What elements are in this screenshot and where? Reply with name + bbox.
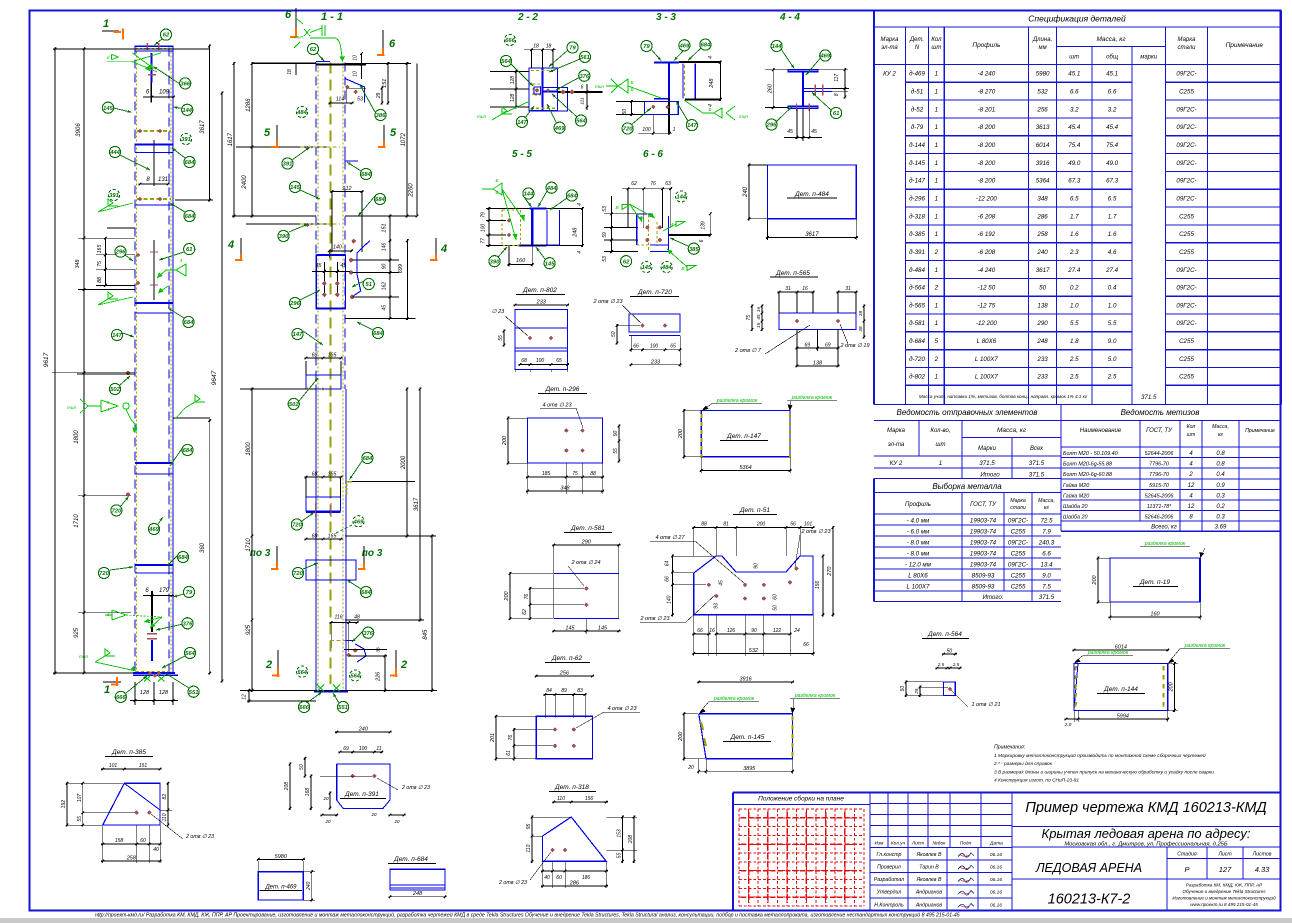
svg-text:147: 147 [687, 123, 697, 129]
svg-text:2 отв ∅ 7: 2 отв ∅ 7 [734, 348, 762, 354]
svg-text:9617: 9617 [43, 352, 50, 367]
column 1 right bracket plate [173, 417, 210, 419]
svg-text:1.8: 1.8 [1070, 338, 1079, 345]
column 1 top cap [135, 45, 174, 47]
svg-text:-8 270: -8 270 [978, 89, 996, 96]
svg-text:1: 1 [673, 127, 676, 133]
svg-text:2 отв ∅ 23: 2 отв ∅ 23 [800, 529, 831, 535]
svg-text:296: 296 [115, 250, 126, 256]
svg-text:55: 55 [498, 335, 504, 341]
svg-text:5.5: 5.5 [1108, 320, 1117, 327]
svg-text:145: 145 [565, 626, 575, 632]
svg-text:д-147: д-147 [909, 178, 925, 185]
svg-text:69: 69 [343, 746, 349, 752]
svg-text:шт: шт [931, 45, 941, 51]
svg-text:50: 50 [611, 331, 617, 337]
svg-text:д-581: д-581 [909, 320, 925, 327]
svg-text:40: 40 [153, 847, 159, 853]
svg-text:09Г2С-: 09Г2С- [1176, 160, 1196, 167]
svg-text:Марка: Марка [1178, 37, 1197, 43]
svg-text:Дет. п-391: Дет. п-391 [344, 791, 379, 798]
svg-text:3 В размерах длины и ширины у: 3 В размерах длины и ширины учтен припус… [994, 769, 1214, 775]
svg-text:147: 147 [112, 333, 122, 339]
section 4-4 flange bolts [796, 104, 798, 112]
svg-text:20: 20 [322, 796, 329, 801]
svg-text:2.5: 2.5 [937, 662, 945, 667]
svg-text:128: 128 [140, 690, 150, 696]
svg-text:1710: 1710 [74, 514, 80, 528]
svg-text:д-144: д-144 [909, 142, 925, 149]
svg-text:233: 233 [536, 300, 547, 306]
svg-text:Кол: Кол [931, 37, 942, 43]
svg-text:1.6: 1.6 [1108, 231, 1117, 238]
column 2 olive splice level 1 [236, 146, 330, 148]
section 6-6 balloons [676, 191, 687, 202]
svg-text:391: 391 [109, 193, 119, 199]
svg-text:290: 290 [1036, 320, 1048, 327]
svg-text:разделка кромок: разделка кромок [716, 398, 758, 404]
svg-text:260: 260 [767, 83, 773, 94]
svg-text:31: 31 [845, 286, 851, 292]
svg-text:разделка кромок: разделка кромок [791, 395, 833, 401]
svg-text:1: 1 [103, 18, 109, 30]
svg-text:845: 845 [423, 629, 429, 640]
svg-text:64: 64 [665, 561, 671, 567]
svg-text:116: 116 [335, 615, 343, 621]
svg-text:144: 144 [772, 44, 782, 50]
svg-text:502: 502 [289, 402, 299, 408]
svg-text:тип: тип [477, 114, 486, 119]
column 1 weld symbols [111, 54, 118, 59]
svg-text:С255: С255 [1011, 550, 1026, 557]
svg-text:Гайка М20: Гайка М20 [1063, 492, 1089, 499]
detail p-469 [257, 858, 305, 860]
svg-text:8509-93: 8509-93 [972, 572, 995, 579]
svg-text:564: 564 [576, 119, 586, 125]
svg-text:-8 200: -8 200 [978, 142, 996, 149]
svg-text:6.5: 6.5 [1108, 195, 1117, 202]
svg-text:75: 75 [97, 261, 103, 267]
svg-text:2 отв ∅ 23: 2 отв ∅ 23 [185, 834, 214, 840]
svg-text:2400: 2400 [242, 175, 248, 190]
svg-text:348: 348 [75, 260, 81, 269]
svg-text:Дет. п-385: Дет. п-385 [111, 749, 146, 756]
svg-text:720: 720 [623, 127, 633, 133]
svg-text:шт: шт [1187, 432, 1196, 438]
svg-text:2 - 2: 2 - 2 [517, 12, 538, 23]
svg-text:d: d [107, 55, 110, 60]
svg-text:разделка кромок: разделка кромок [713, 696, 755, 702]
svg-text:д-52: д-52 [911, 106, 924, 113]
svg-text:45: 45 [382, 305, 388, 311]
svg-text:Лист: Лист [911, 841, 924, 847]
svg-text:1617: 1617 [228, 132, 234, 146]
svg-text:82: 82 [162, 794, 168, 800]
svg-text:4: 4 [577, 251, 583, 254]
svg-text:551: 551 [189, 690, 199, 696]
svg-text:38: 38 [858, 311, 863, 317]
svg-text:208: 208 [284, 782, 290, 792]
svg-text:2 отв ∅ 23: 2 отв ∅ 23 [401, 785, 430, 791]
svg-text:Масса, кг: Масса, кг [997, 427, 1027, 434]
svg-text:Дет. п-144: Дет. п-144 [1103, 686, 1138, 693]
svg-text:Дет. п-51: Дет. п-51 [739, 507, 770, 514]
svg-text:09Г2С-: 09Г2С- [1008, 561, 1028, 568]
svg-text:469: 469 [819, 54, 830, 60]
column 2 top small dim 18 [295, 64, 297, 76]
svg-text:Дет. п-581: Дет. п-581 [570, 525, 605, 532]
section 4-4 dims [772, 68, 774, 109]
column 2 olive splice level 2 [246, 223, 330, 225]
section 6-6 top dims [622, 188, 672, 190]
svg-text:146: 146 [382, 243, 388, 252]
svg-text:564: 564 [185, 651, 195, 657]
svg-text:145: 145 [103, 106, 113, 112]
svg-text:Дет. п-484: Дет. п-484 [794, 191, 829, 198]
svg-text:90: 90 [382, 264, 388, 270]
detail p-51 right dims [822, 555, 824, 617]
svg-text:3.2: 3.2 [1108, 106, 1117, 113]
svg-text:12: 12 [1188, 504, 1195, 510]
svg-text:684: 684 [185, 214, 195, 220]
svg-text:296: 296 [766, 123, 777, 129]
svg-text:18: 18 [546, 44, 552, 50]
svg-text:101: 101 [109, 763, 118, 769]
svg-text:160213-К7-2: 160213-К7-2 [1048, 892, 1131, 908]
svg-text:В: В [681, 266, 684, 271]
svg-text:69: 69 [804, 343, 810, 349]
svg-text:160: 160 [1150, 612, 1160, 618]
column 1 right dim 9647 [221, 92, 223, 683]
svg-text:Наименование: Наименование [1080, 428, 1122, 434]
svg-text:684: 684 [567, 194, 577, 200]
section 5-5 hidden channel [502, 210, 520, 246]
svg-text:88: 88 [701, 522, 707, 528]
svg-text:153: 153 [617, 829, 623, 838]
svg-text:11371-78*: 11371-78* [1147, 504, 1172, 510]
svg-text:36: 36 [376, 647, 382, 653]
svg-text:d: d [107, 612, 110, 617]
svg-text:49.0: 49.0 [1106, 160, 1119, 167]
svg-text:348: 348 [560, 486, 570, 492]
detail p-145 [697, 681, 794, 683]
svg-text:66: 66 [697, 628, 703, 634]
column 2 right bracket mid [351, 241, 370, 298]
svg-text:52644-2006: 52644-2006 [1145, 451, 1174, 457]
svg-text:50: 50 [772, 605, 778, 611]
svg-text:Масса учит. наплавки 1%, метиз: Масса учит. наплавки 1%, метизов, болтов… [919, 394, 1088, 399]
svg-text:- 8.0 мм: - 8.0 мм [907, 539, 930, 546]
svg-text:Профиль: Профиль [972, 42, 1001, 49]
svg-text:2.0: 2.0 [1064, 722, 1072, 728]
svg-text:L 80X6: L 80X6 [977, 338, 997, 345]
svg-text:240: 240 [306, 881, 312, 891]
svg-text:Дет.: Дет. [909, 37, 924, 43]
svg-text:233: 233 [1036, 356, 1048, 363]
svg-text:д-296: д-296 [909, 195, 925, 202]
svg-text:684: 684 [178, 555, 188, 561]
svg-text:марки: марки [1140, 55, 1158, 61]
svg-text:- 6.0 мм: - 6.0 мм [907, 528, 930, 535]
svg-text:тип: тип [79, 654, 88, 659]
svg-text:385: 385 [689, 247, 699, 253]
svg-text:09Г2С-: 09Г2С- [1176, 142, 1196, 149]
svg-text:12: 12 [242, 694, 248, 700]
svg-text:666: 666 [116, 695, 126, 701]
svg-text:Кол: Кол [1187, 424, 1196, 430]
svg-text:Дет. п-565: Дет. п-565 [775, 270, 810, 277]
svg-text:1072: 1072 [401, 132, 407, 146]
svg-text:56: 56 [790, 522, 796, 528]
svg-text:кг: кг [1218, 432, 1223, 438]
svg-text:45.1: 45.1 [1106, 71, 1118, 78]
svg-text:258: 258 [126, 856, 137, 862]
svg-text:- 8.0 мм: - 8.0 мм [907, 550, 930, 557]
svg-text:666: 666 [505, 38, 515, 44]
section 3-3 bottom plate [645, 101, 679, 114]
section marker 1 top [102, 30, 119, 32]
signature table columns [1011, 793, 1013, 912]
svg-text:1800: 1800 [246, 442, 252, 456]
column 2 splice plate box [316, 255, 345, 308]
svg-text:20: 20 [687, 765, 694, 771]
svg-text:Дет. п-145: Дет. п-145 [730, 734, 765, 741]
svg-text:48: 48 [354, 615, 360, 621]
svg-text:5 - 5: 5 - 5 [512, 149, 532, 160]
column 1 web weld line top [150, 53, 152, 83]
svg-text:27.4: 27.4 [1067, 267, 1081, 274]
svg-text:110: 110 [557, 796, 565, 802]
svg-text:240: 240 [1036, 249, 1048, 256]
svg-text:Кол-во,: Кол-во, [930, 428, 950, 434]
svg-text:2.5: 2.5 [952, 662, 960, 667]
svg-text:L 100X7: L 100X7 [975, 374, 998, 381]
svg-text:Б: Б [709, 107, 712, 112]
svg-text:Яковлев В: Яковлев В [916, 852, 942, 858]
column 1 stiffener 684 mid [135, 302, 173, 304]
svg-text:д-565: д-565 [909, 302, 925, 309]
column 1 base [136, 671, 172, 673]
section 6-6 black stub [669, 234, 711, 236]
svg-text:1710: 1710 [246, 538, 252, 552]
svg-text:2 отв ∅ 23: 2 отв ∅ 23 [592, 299, 623, 305]
section 2-2 weld symbol [492, 114, 502, 120]
svg-text:371.5: 371.5 [1029, 472, 1045, 479]
svg-text:286: 286 [1036, 213, 1048, 220]
svg-text:151: 151 [139, 763, 148, 769]
section 6-6 weld flags [622, 205, 630, 210]
svg-text:13.4: 13.4 [1040, 561, 1053, 568]
svg-text:19903-74: 19903-74 [970, 561, 997, 568]
svg-text:9.0: 9.0 [1108, 338, 1117, 345]
svg-text:248: 248 [1036, 338, 1048, 345]
svg-text:110: 110 [162, 813, 168, 821]
column 2 bolts lower bracket [330, 622, 351, 624]
svg-text:484: 484 [661, 265, 672, 271]
svg-text:С255: С255 [1179, 231, 1194, 238]
svg-text:390: 390 [279, 234, 289, 240]
svg-text:Проверил: Проверил [877, 864, 901, 870]
svg-text:145: 145 [642, 265, 652, 271]
svg-text:100: 100 [481, 224, 487, 233]
hardware list table [1061, 446, 1281, 448]
svg-text:Марка: Марка [887, 428, 906, 434]
svg-text:Итого: Итого [980, 472, 1000, 479]
svg-text:1 Маркировку металлоконструкц: 1 Маркировку металлоконструкций производ… [994, 752, 1206, 759]
svg-text:4 Конструкция изгот. по СНиП-: 4 Конструкция изгот. по СНиП-23-81 [994, 778, 1079, 784]
svg-text:145: 145 [598, 626, 608, 632]
svg-text:2000: 2000 [401, 455, 407, 470]
svg-text:Всего, кг: Всего, кг [1151, 525, 1177, 531]
svg-text:Яковлев В: Яковлев В [916, 877, 942, 883]
svg-text:93: 93 [714, 603, 720, 609]
svg-text:Изготовление и монтаж металлок: Изготовление и монтаж металлоконструкций [1172, 895, 1276, 901]
svg-text:10: 10 [353, 55, 359, 61]
column 1 gusset 502 [126, 372, 130, 374]
svg-text:564: 564 [350, 674, 360, 680]
svg-text:185: 185 [542, 471, 551, 477]
svg-text:19903-74: 19903-74 [970, 539, 997, 546]
svg-text:684: 684 [361, 172, 371, 178]
svg-text:д-564: д-564 [909, 285, 925, 292]
svg-text:502: 502 [110, 387, 120, 393]
svg-text:128: 128 [159, 690, 169, 696]
section 2-2 balloons [504, 34, 515, 45]
svg-text:212: 212 [341, 186, 351, 192]
svg-text:101: 101 [804, 522, 813, 528]
svg-text:-12 200: -12 200 [976, 320, 998, 327]
svg-text:88: 88 [97, 277, 103, 283]
svg-text:КУ 2: КУ 2 [883, 71, 896, 78]
svg-text:4: 4 [577, 203, 583, 206]
section 4-4 gusset stub [803, 88, 832, 90]
svg-text:371.5: 371.5 [1029, 460, 1045, 467]
svg-text:№док: №док [933, 841, 947, 847]
section 3-3 I-beam [654, 61, 679, 63]
svg-text:Спецификация деталей: Спецификация деталей [1028, 14, 1126, 24]
svg-text:720: 720 [99, 571, 109, 577]
svg-text:62: 62 [623, 259, 630, 265]
svg-text:53: 53 [357, 97, 363, 103]
svg-text:9647: 9647 [211, 370, 218, 385]
svg-text:50: 50 [900, 686, 906, 692]
svg-text:С255: С255 [1179, 356, 1194, 363]
column 2 right dim chains [406, 62, 408, 218]
detail p-385 outline [103, 783, 160, 825]
svg-text:168: 168 [305, 788, 311, 797]
svg-text:6: 6 [581, 85, 584, 91]
svg-text:4 отв ∅ 23: 4 отв ∅ 23 [607, 706, 637, 712]
svg-text:348: 348 [1037, 195, 1048, 202]
svg-text:233: 233 [1036, 374, 1048, 381]
svg-text:89: 89 [561, 688, 567, 694]
svg-text:4: 4 [107, 400, 110, 405]
svg-text:126: 126 [727, 628, 736, 634]
svg-text:158: 158 [115, 838, 124, 844]
svg-text:50: 50 [1039, 285, 1046, 292]
svg-text:Выборка металла: Выборка металла [932, 482, 1002, 491]
svg-text:5.0: 5.0 [1108, 356, 1117, 363]
svg-text:200: 200 [1092, 574, 1098, 585]
column 1 right dim 3617 [209, 45, 211, 202]
svg-text:390: 390 [490, 259, 500, 265]
svg-text:д-391: д-391 [909, 249, 925, 256]
svg-text:109: 109 [159, 90, 170, 96]
svg-text:20: 20 [324, 819, 331, 824]
stage list cells [1167, 858, 1281, 860]
svg-text:09Г2С-: 09Г2С- [1176, 285, 1196, 292]
svg-text:Дет. п-720: Дет. п-720 [637, 289, 672, 296]
svg-text:Марка: Марка [1010, 498, 1026, 504]
svg-text:5994: 5994 [1117, 714, 1129, 720]
column 2 weld marks level lines [299, 146, 301, 148]
svg-text:тип: тип [67, 405, 76, 410]
svg-text:165: 165 [328, 472, 337, 478]
column 2 left dim chains [252, 63, 316, 65]
svg-text:5.5: 5.5 [1070, 320, 1079, 327]
svg-text:53: 53 [602, 256, 608, 262]
column 1 stiffener 565 [135, 564, 173, 566]
svg-text:разделка кромок: разделка кромок [1087, 650, 1129, 656]
column 1 base dim 128 128 [134, 682, 136, 705]
svg-text:131: 131 [158, 177, 168, 183]
svg-text:0.4: 0.4 [1216, 472, 1225, 478]
svg-text:тип: тип [595, 84, 604, 89]
svg-text:122: 122 [773, 628, 782, 634]
svg-text:эл-та: эл-та [881, 45, 898, 51]
svg-text:Масса,: Масса, [1212, 424, 1229, 430]
detail p-51 top dims [692, 527, 717, 529]
svg-text:7796-70: 7796-70 [1149, 472, 1169, 478]
svg-text:469: 469 [554, 126, 565, 132]
svg-text:2 отв ∅ 19: 2 отв ∅ 19 [839, 343, 869, 349]
svg-text:www.проект.ru 8 495 215-01: www.проект.ru 8 495 215-01-45 [1190, 902, 1258, 907]
svg-text:6.6: 6.6 [1042, 550, 1051, 557]
svg-text:63: 63 [665, 181, 671, 187]
column 2 tab 684 level [346, 481, 415, 483]
svg-text:19903-74: 19903-74 [970, 528, 997, 535]
svg-text:-12 50: -12 50 [978, 285, 996, 292]
svg-text:Марки: Марки [978, 446, 997, 452]
svg-text:684: 684 [184, 320, 194, 326]
svg-text:3916: 3916 [1036, 160, 1050, 167]
svg-text:1: 1 [935, 320, 938, 327]
svg-text:6: 6 [389, 38, 396, 50]
svg-text:201: 201 [490, 733, 496, 743]
svg-text:138: 138 [1037, 302, 1048, 309]
svg-text:Андрианов: Андрианов [915, 890, 943, 896]
svg-text:45: 45 [787, 129, 793, 135]
svg-text:-12 200: -12 200 [976, 195, 998, 202]
detail p-318 outline [543, 817, 607, 861]
detail p-51 bottom dims [692, 633, 710, 635]
svg-text:95: 95 [526, 824, 532, 830]
svg-text:Масса, кг: Масса, кг [1096, 36, 1126, 43]
svg-text:Изм: Изм [875, 841, 885, 847]
svg-text:61: 61 [506, 750, 512, 756]
column 2 balloons [317, 53, 324, 61]
svg-text:- 12.0 мм: - 12.0 мм [905, 561, 932, 568]
svg-text:0.2: 0.2 [1070, 285, 1079, 292]
svg-text:Дет. п-684: Дет. п-684 [393, 856, 428, 863]
svg-text:65: 65 [556, 358, 562, 364]
svg-text:Кол.уч: Кол.уч [891, 841, 906, 847]
svg-text:09Г2С-: 09Г2С- [1008, 517, 1028, 524]
svg-text:-8 200: -8 200 [978, 178, 996, 185]
svg-text:62: 62 [310, 47, 317, 53]
svg-text:-6 208: -6 208 [978, 213, 996, 220]
svg-text:684: 684 [375, 197, 385, 203]
